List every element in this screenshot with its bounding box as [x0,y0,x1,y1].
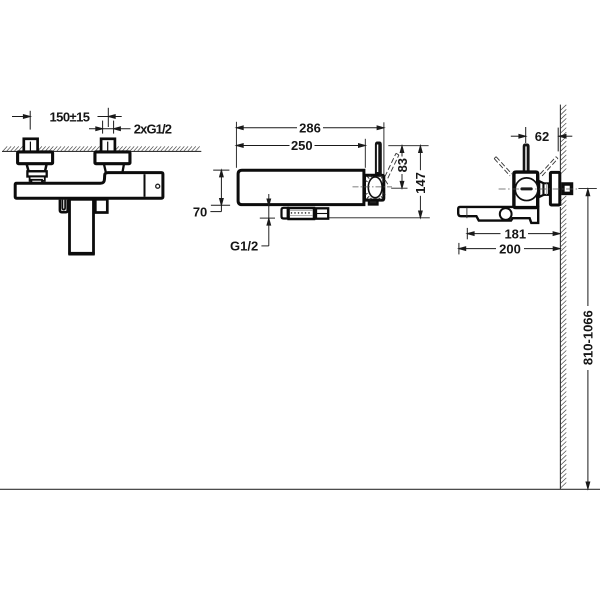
knurl ticks [365,175,386,201]
body (top view) [238,170,364,204]
brand label bar [520,187,532,190]
diverter knob circle on spout [500,208,512,220]
extension line left (286/250) [235,122,237,168]
wall line (side) [559,105,561,172]
extension line right 286 [383,122,385,176]
end cap screw circle (front) [156,184,160,188]
extension through spout [466,208,468,219]
svg-text:250: 250 [291,138,313,153]
dimension 83 [388,146,428,189]
aerator / G1/2 outlet (top view) [282,208,329,219]
rotated handle phantom left (side) [494,157,512,176]
rotated handle (phantom, top view) [385,153,399,184]
dimension G1/2 leader [260,194,275,246]
svg-text:83: 83 [395,158,410,172]
dimension 62 [511,127,573,151]
svg-text:181: 181 [504,226,526,241]
dimension 810-1066 [578,189,596,489]
handle end cap divider (front) [144,174,146,197]
svg-text:70: 70 [193,205,207,220]
spout (side view) [458,207,538,223]
dimension 147 [329,146,430,218]
floor line [0,488,600,490]
handle lever (side) [523,144,530,175]
svg-text:147: 147 [413,172,428,194]
union S-connector left [18,139,53,184]
diverter square below body (front) [95,199,107,212]
dimension 250 [236,144,365,148]
centerline (side view) [499,188,579,190]
wall line (front view) [2,150,201,152]
handle lever (top view) [375,142,382,175]
dimension 286 [236,126,384,130]
dimension 150±15 [12,108,122,130]
flange cone (side) [539,181,543,197]
supply pipe behind wall [563,184,572,193]
svg-text:200: 200 [499,241,521,256]
wall escutcheon (side) [550,172,559,205]
centerline through cartridge (top view) [353,186,393,188]
dimension 200 [459,243,560,255]
rotated handle phantom right (side) [540,157,558,176]
wall hatch (side) [561,105,567,488]
dimension 181 [467,228,560,239]
svg-text:150±15: 150±15 [50,109,90,124]
union S-connector right [95,139,130,173]
extension line right 250 [364,139,366,168]
hose outlet below body (front) [60,200,68,213]
svg-text:810-1066: 810-1066 [581,310,596,365]
svg-text:286: 286 [299,120,321,135]
thermostat circle (side) [515,178,538,201]
svg-text:2xG1/2: 2xG1/2 [134,121,172,136]
body square (side) [514,172,538,208]
dimension 70 [210,170,230,212]
spout (front) [68,199,94,254]
wall hatch (front view) [3,146,200,151]
svg-text:G1/2: G1/2 [230,239,258,254]
cartridge housing (top view) [365,175,384,200]
dimension 2xG1/2 [89,121,131,134]
cartridge ellipse (top view) [368,177,382,198]
faucet body (front) [15,173,163,199]
svg-text:62: 62 [535,129,549,144]
mounting ring (side) [544,183,549,195]
